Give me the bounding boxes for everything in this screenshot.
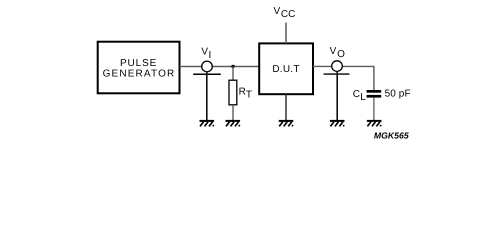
ground (VO) <box>330 120 345 127</box>
wire: pulse generator output to D.U.T. input <box>180 65 260 67</box>
ground (D.U.T.) <box>279 120 294 127</box>
svg-text:V: V <box>330 46 337 57</box>
wire: D.U.T. ground pin <box>285 94 287 120</box>
svg-text:50 pF: 50 pF <box>385 89 411 100</box>
resistor RT <box>229 66 237 120</box>
svg-text:CC: CC <box>281 9 295 20</box>
svg-text:R: R <box>239 87 246 98</box>
wire: VO probe to ground <box>336 72 338 121</box>
D.U.T. box <box>259 43 313 94</box>
capacitor CL <box>367 90 382 120</box>
svg-text:V: V <box>201 47 208 58</box>
svg-text:D.U.T: D.U.T <box>272 64 299 75</box>
pulse generator box <box>98 42 180 94</box>
ground (VI) <box>200 120 215 127</box>
svg-text:PULSE: PULSE <box>120 58 157 69</box>
svg-text:GENERATOR: GENERATOR <box>103 69 176 80</box>
label CL <box>353 89 367 103</box>
svg-text:L: L <box>360 92 366 103</box>
label RT <box>239 87 252 101</box>
probe VI <box>193 61 221 74</box>
svg-text:MGK565: MGK565 <box>374 130 409 140</box>
svg-text:V: V <box>274 6 281 17</box>
svg-text:O: O <box>337 49 345 60</box>
label VI <box>201 47 211 61</box>
wire: VI probe to ground <box>206 72 208 121</box>
svg-text:T: T <box>246 89 252 100</box>
ground (CL) <box>367 120 382 127</box>
probe VO <box>324 61 350 74</box>
svg-text:I: I <box>209 50 212 61</box>
VCC supply line <box>285 23 287 44</box>
label VCC <box>274 6 296 20</box>
ground (RT) <box>226 120 241 127</box>
junction: RT tap <box>231 65 234 68</box>
svg-text:C: C <box>353 89 360 100</box>
wire: D.U.T. output to load <box>313 66 374 90</box>
label VO <box>330 46 346 60</box>
